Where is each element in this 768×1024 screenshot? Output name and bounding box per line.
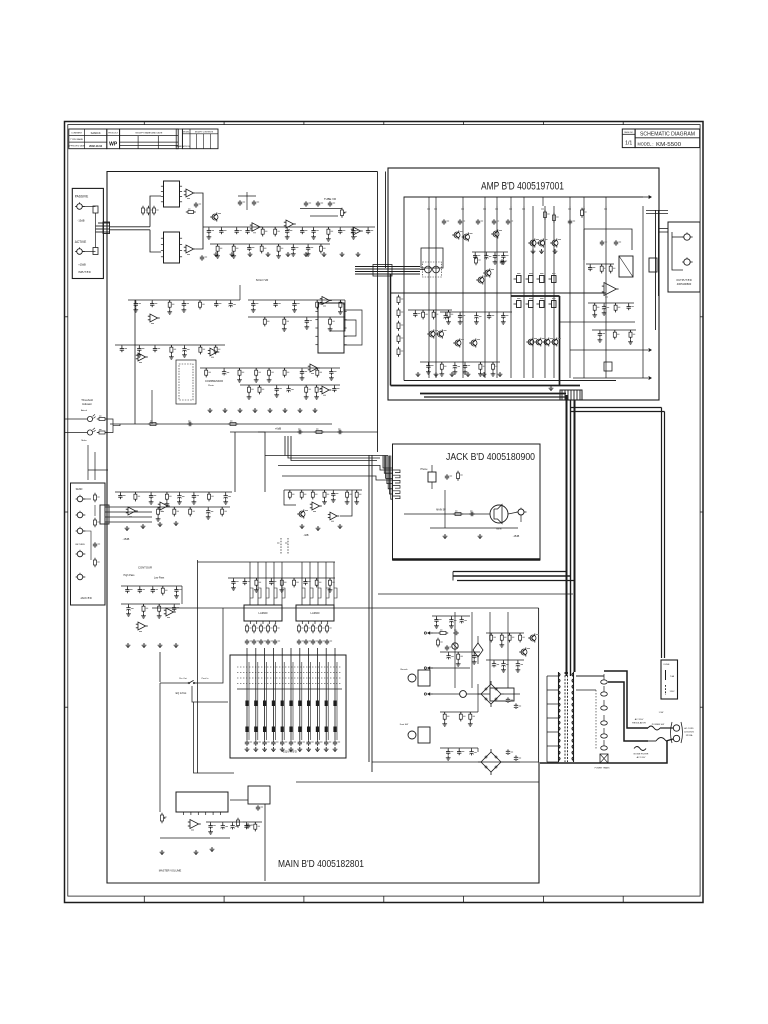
resistor R127 xyxy=(329,317,331,319)
wire long rail y594 xyxy=(378,593,573,595)
jack board outline JACK B'D xyxy=(393,444,541,560)
svg-text:115V: 115V xyxy=(670,691,675,693)
resistor R174 xyxy=(278,244,280,246)
resistor R145 xyxy=(284,368,286,370)
resistor R100 xyxy=(440,632,446,635)
transistor Q32 xyxy=(455,340,461,346)
transistor Q10 xyxy=(299,511,305,517)
resistor R140 xyxy=(205,368,207,370)
capacitor C562 xyxy=(471,748,473,750)
input arrow send xyxy=(427,631,430,635)
resistor R58 xyxy=(553,215,556,221)
resistor R322 xyxy=(189,507,191,509)
fuse F10 line xyxy=(648,726,660,730)
ic U41 eq LA3600 xyxy=(296,605,334,621)
op-amp U8 xyxy=(322,297,330,305)
svg-text:Threshold: Threshold xyxy=(81,398,93,402)
capacitor C122 xyxy=(275,300,277,302)
ground xyxy=(208,235,210,237)
svg-text:POWER SW: POWER SW xyxy=(652,724,665,726)
capacitor C710 xyxy=(339,227,341,229)
ground xyxy=(594,313,596,315)
ground xyxy=(503,668,505,670)
wire xyxy=(408,309,452,311)
wire xyxy=(203,226,375,228)
wire eq left bus pair xyxy=(193,608,195,702)
fuse F5 oval xyxy=(601,746,608,750)
svg-text:-15dB: -15dB xyxy=(123,538,130,541)
ground xyxy=(473,660,475,662)
wire footswitch link xyxy=(433,693,460,695)
resistor R46 xyxy=(230,423,236,426)
wire solo row verticals xyxy=(134,300,136,424)
svg-text:Make: Make xyxy=(81,440,87,442)
resistor R320 xyxy=(157,507,159,509)
wire xyxy=(200,367,340,369)
svg-text:-15dB: -15dB xyxy=(78,219,85,223)
wire xyxy=(240,384,340,386)
capacitor C152 xyxy=(276,385,278,387)
ground xyxy=(170,355,172,357)
resistor R272 xyxy=(630,330,632,332)
ground xyxy=(502,260,504,262)
ground xyxy=(329,588,331,590)
transistor Q60 xyxy=(530,635,536,641)
ic U1 input stage xyxy=(164,181,180,207)
resistor R530 xyxy=(490,633,492,635)
title block modify table xyxy=(120,129,179,149)
wire xyxy=(228,577,335,579)
resistor R414 xyxy=(281,578,283,580)
capacitor C110 filter xyxy=(507,697,509,699)
ground xyxy=(448,320,450,322)
wire transformer secondary taps xyxy=(547,675,559,677)
capacitor C910 xyxy=(334,740,336,742)
node jack io bundle xyxy=(100,505,109,524)
resistor R222 xyxy=(433,310,435,312)
op-amp U12 xyxy=(310,364,318,372)
wire xyxy=(486,659,524,661)
resistor R342 xyxy=(158,604,160,606)
capacitor C113 filter xyxy=(515,755,517,757)
transistor Q25 xyxy=(485,270,491,276)
resistor R1 input xyxy=(93,206,98,213)
PB power transistor row 1 xyxy=(514,278,517,280)
amp long verticals xyxy=(428,206,430,378)
transistor Q31 xyxy=(438,331,444,337)
svg-text:COMPRESSOR: COMPRESSOR xyxy=(205,380,223,383)
capacitor C572 xyxy=(461,616,463,618)
wire rail y782 xyxy=(296,781,539,783)
resistor R154 xyxy=(305,385,307,387)
resistor R550 xyxy=(444,712,446,714)
capacitor C7 xyxy=(239,200,241,202)
ground xyxy=(193,500,195,502)
capacitor C220 xyxy=(414,310,416,312)
capacitor C78 xyxy=(313,227,315,229)
svg-text:MODEL :: MODEL : xyxy=(638,142,654,147)
capacitor C411 xyxy=(244,578,246,580)
amp out arrow low xyxy=(649,376,652,380)
resistor R2 input xyxy=(93,248,98,255)
op-amp U33 xyxy=(166,608,174,616)
resistor R64 xyxy=(397,349,400,355)
small box master right xyxy=(248,786,270,804)
svg-text:LA3600: LA3600 xyxy=(311,611,321,615)
capacitor C95 xyxy=(290,740,292,742)
node junction hash amp input xyxy=(373,265,392,277)
pot VR30 circle xyxy=(452,643,458,649)
op-amp U5 xyxy=(252,223,260,231)
resistor R262 xyxy=(615,303,617,305)
resistor R531 xyxy=(501,633,503,635)
capacitor C96 xyxy=(299,740,301,742)
svg-text:LA3600: LA3600 xyxy=(259,611,269,615)
node connector hash amp-main xyxy=(560,390,582,400)
svg-text:Foot SW: Foot SW xyxy=(400,723,409,726)
ground xyxy=(150,500,152,502)
ground xyxy=(268,378,270,380)
capacitor C130 xyxy=(121,345,123,347)
op-amp U31 xyxy=(160,502,168,510)
potentiometer VR15 slider xyxy=(290,648,292,740)
resistor R551 xyxy=(460,712,462,714)
svg-text:Reverb: Reverb xyxy=(400,668,408,671)
resistor R321 xyxy=(173,507,175,509)
input arrow return xyxy=(427,666,430,670)
svg-text:AMP B'D 4005197001: AMP B'D 4005197001 xyxy=(481,181,564,193)
ground xyxy=(436,624,438,626)
ground jack xyxy=(444,534,446,536)
ground xyxy=(457,662,459,664)
ground xyxy=(475,320,477,322)
resistor R333 xyxy=(162,586,164,588)
ground xyxy=(630,340,632,342)
resistor R173 xyxy=(261,244,263,246)
ground xyxy=(313,235,315,237)
ground xyxy=(599,338,601,340)
svg-text:TYPE NAME: TYPE NAME xyxy=(70,138,83,141)
capacitor C61 xyxy=(469,513,471,515)
capacitor C81 xyxy=(253,639,255,641)
resistor R126 xyxy=(316,300,318,302)
ground xyxy=(252,308,254,310)
svg-text:ACTIVE: ACTIVE xyxy=(75,240,87,244)
bus heavy to right x661 xyxy=(571,407,662,409)
resistor R532 xyxy=(509,633,511,635)
capacitor C70 xyxy=(208,227,210,229)
capacitor C131 xyxy=(138,345,140,347)
potentiometer VR2 phones xyxy=(428,472,436,482)
svg-text:FUSE: FUSE xyxy=(664,664,670,666)
resistor R133 xyxy=(170,345,172,347)
capacitor C141 xyxy=(223,368,225,370)
capacitor C60 xyxy=(446,474,448,476)
wire contour verticals xyxy=(159,652,161,682)
ground xyxy=(138,353,140,355)
resistor R417 xyxy=(316,578,318,580)
title block page-no cell xyxy=(622,129,635,148)
capacitor C83 xyxy=(267,639,269,641)
resistor R72 xyxy=(94,560,97,565)
capacitor C86 xyxy=(305,639,307,641)
wire transformer primary to regulators xyxy=(576,675,604,677)
wire rail y762 xyxy=(372,761,539,763)
potentiometer VR1 tube xyxy=(341,210,344,216)
resistor R75 xyxy=(274,227,276,229)
svg-text:PASSIVE: PASSIVE xyxy=(75,195,88,199)
capacitor C84 xyxy=(274,639,276,641)
wire threshold to chain xyxy=(113,424,120,426)
svg-text:RETURN: RETURN xyxy=(75,544,85,546)
resistor R234 xyxy=(479,362,481,364)
wire jack entry fan xyxy=(383,456,393,469)
capacitor C340 xyxy=(128,604,130,606)
resistor R50 xyxy=(475,258,478,263)
resistor R221 xyxy=(422,310,424,312)
amp feedback loop xyxy=(584,229,632,250)
wire jack io stubs above xyxy=(87,445,89,480)
resistor R121 xyxy=(264,317,266,319)
ground xyxy=(494,260,496,262)
eq dotted slider rows xyxy=(237,666,342,668)
wire xyxy=(284,489,362,491)
bus heavy amp bottom xyxy=(420,393,566,395)
eq board outline EQ/VR B'D xyxy=(230,655,346,758)
capacitor C3 xyxy=(195,202,197,204)
wire eq switch connections xyxy=(160,682,187,684)
jack J20 headphone xyxy=(518,509,524,515)
wire main box right edge upper xyxy=(538,608,540,762)
ic U50 master xyxy=(176,792,228,812)
capacitor C110 xyxy=(135,300,137,302)
capacitor C77 xyxy=(301,227,303,229)
ground xyxy=(286,235,288,237)
ground row mid xyxy=(126,526,128,528)
capacitor C10 xyxy=(305,201,307,203)
ground xyxy=(225,500,227,502)
svg-text:POWER TRANS: POWER TRANS xyxy=(595,767,611,770)
capacitor C134 xyxy=(184,345,186,347)
resistor R142 xyxy=(239,368,241,370)
wire xyxy=(128,299,240,301)
capacitor C315 xyxy=(193,492,195,494)
transistor Q61 xyxy=(521,649,527,655)
svg-text:PAGE NO: PAGE NO xyxy=(624,131,633,134)
ground row prejack xyxy=(301,524,303,526)
potentiometer VR18 slider xyxy=(316,648,318,740)
capacitor C571 xyxy=(450,616,452,618)
resistor R350 xyxy=(289,490,291,492)
input jack J2 active xyxy=(77,249,83,255)
capacitor C89 xyxy=(326,639,328,641)
wire xyxy=(472,251,508,253)
capacitor C115 xyxy=(215,300,217,302)
output jack J10 xyxy=(684,234,690,240)
resistor R341 xyxy=(143,604,145,606)
jack J40 reverb xyxy=(408,674,416,682)
ground xyxy=(169,310,171,312)
potentiometer VR110 slider xyxy=(334,648,336,740)
svg-text:AC 115V: AC 115V xyxy=(635,718,644,721)
capacitor C120 xyxy=(252,300,254,302)
resistor R93 xyxy=(319,626,322,631)
wire jack bus stubs xyxy=(452,572,454,581)
capacitor C270 xyxy=(599,330,601,332)
capacitor C4 xyxy=(201,255,203,257)
capacitor C230 xyxy=(427,362,429,364)
svg-text:SCHEMATIC DIAGRAM: SCHEMATIC DIAGRAM xyxy=(640,132,695,138)
pot dashes above eq xyxy=(280,538,282,554)
svg-text:+15dB: +15dB xyxy=(78,263,86,267)
capacitor C331 xyxy=(139,586,141,588)
svg-text:TUBE VR: TUBE VR xyxy=(324,197,336,201)
ground xyxy=(327,237,329,239)
ground xyxy=(158,614,160,616)
capacitor C354 xyxy=(332,490,334,492)
capacitor C101 xyxy=(257,805,259,807)
wire xyxy=(248,316,345,318)
capacitor C512 xyxy=(232,822,234,824)
relay K1 xyxy=(619,256,633,277)
capacitor C31 xyxy=(337,431,339,433)
resistor R101 xyxy=(437,640,440,645)
resistor R352 xyxy=(312,490,314,492)
wire xyxy=(115,344,225,346)
amp top rail drops xyxy=(428,197,430,206)
resistor R123 xyxy=(283,317,285,319)
ground xyxy=(306,325,308,327)
resistor R80 xyxy=(246,626,249,631)
resistor R143 xyxy=(255,368,257,370)
resistor R91 xyxy=(305,626,308,631)
svg-text:+6dB: +6dB xyxy=(275,427,281,431)
svg-text:PRODUCT: PRODUCT xyxy=(108,132,119,134)
capacitor C112 filter xyxy=(507,749,509,751)
wire xyxy=(210,243,330,245)
resistor R57 xyxy=(544,212,547,218)
svg-text:Attack: Attack xyxy=(81,409,88,412)
eq ground row xyxy=(246,747,248,749)
wire drop x152 xyxy=(151,390,153,424)
capacitor C511 xyxy=(222,822,224,824)
ground xyxy=(166,502,168,504)
ground xyxy=(301,376,303,378)
transistor Q26 xyxy=(478,277,484,283)
ground xyxy=(464,370,466,372)
ground xyxy=(447,756,449,758)
ground xyxy=(459,320,461,322)
resistor R11 xyxy=(147,208,150,213)
svg-text:-3dB: -3dB xyxy=(303,534,308,537)
capacitor C570 xyxy=(436,616,438,618)
wire xyxy=(420,361,500,363)
svg-text:-15dB: -15dB xyxy=(513,535,520,538)
fuse F3 oval xyxy=(601,721,608,725)
wire xyxy=(440,651,480,653)
capacitor C416 xyxy=(305,578,307,580)
capacitor C87 xyxy=(312,639,314,641)
input jack J1 passive xyxy=(77,204,83,210)
transistor Q33 xyxy=(471,340,477,346)
amp heavy left edge xyxy=(390,274,392,386)
ground xyxy=(454,370,456,372)
resistor R151 xyxy=(259,385,261,387)
capacitor C148 xyxy=(330,368,332,370)
wire bus into amp y268-274 xyxy=(355,266,420,268)
ground xyxy=(255,588,257,590)
ground xyxy=(183,308,185,310)
capacitor C283 xyxy=(488,312,490,314)
connector output small xyxy=(649,258,657,272)
ground xyxy=(353,235,355,237)
wire xyxy=(592,329,636,331)
svg-text:MODEL: MODEL xyxy=(183,131,189,133)
jack board entry hooks xyxy=(393,470,401,473)
ground xyxy=(316,395,318,397)
capacitor C413 xyxy=(270,578,272,580)
resistor R260 xyxy=(594,303,596,305)
svg-text:WP: WP xyxy=(109,141,118,147)
svg-text:1.5W: 1.5W xyxy=(659,712,664,714)
ground xyxy=(450,624,452,626)
capacitor C71 xyxy=(220,227,222,229)
ground xyxy=(294,308,296,310)
ic U2 input stage xyxy=(164,232,180,263)
bridge rectifier BR2 xyxy=(481,752,501,772)
capacitor C88 xyxy=(319,639,321,641)
wire xyxy=(115,491,232,493)
wire xyxy=(121,603,180,605)
svg-text:T4A: T4A xyxy=(670,675,675,678)
svg-text:MODIFY CONTENTS: MODIFY CONTENTS xyxy=(195,131,214,133)
resistor R313 xyxy=(166,492,168,494)
capacitor C30 xyxy=(297,431,299,433)
jack J34 xyxy=(77,574,83,580)
capacitor C211 xyxy=(485,252,487,254)
ground xyxy=(356,500,358,502)
capacitor C280 xyxy=(445,312,447,314)
capacitor C111 filter xyxy=(515,703,517,705)
wire xyxy=(121,585,182,587)
svg-text:INPUT B'D: INPUT B'D xyxy=(78,270,91,274)
ground xyxy=(283,327,285,329)
ic U14 right block xyxy=(318,303,344,353)
svg-text:JACK B'D 4005180900: JACK B'D 4005180900 xyxy=(446,451,535,463)
ground xyxy=(233,586,235,588)
resistor R71 xyxy=(94,520,97,525)
capacitor C156 xyxy=(333,385,335,387)
box footswitch right xyxy=(490,688,514,701)
ground xyxy=(444,722,446,724)
resistor R252 xyxy=(610,264,612,266)
svg-text:Pre Out: Pre Out xyxy=(179,677,187,680)
amp mid rail y293 xyxy=(391,292,607,294)
ground xyxy=(332,498,334,500)
potentiometer VR17 slider xyxy=(308,648,310,740)
capacitor C111 xyxy=(151,300,153,302)
svg-text:MAIN B'D 4005182801: MAIN B'D 4005182801 xyxy=(278,858,364,870)
ground row amp top xyxy=(532,249,534,251)
sheet outer border xyxy=(65,122,704,903)
transistor Q23 xyxy=(464,234,470,240)
capacitor C80 xyxy=(246,639,248,641)
resistor R79 xyxy=(327,227,329,229)
resistor R92 xyxy=(312,626,315,631)
transistor row upper right xyxy=(530,240,536,246)
capacitor C85 xyxy=(298,639,300,641)
ground xyxy=(305,395,307,397)
